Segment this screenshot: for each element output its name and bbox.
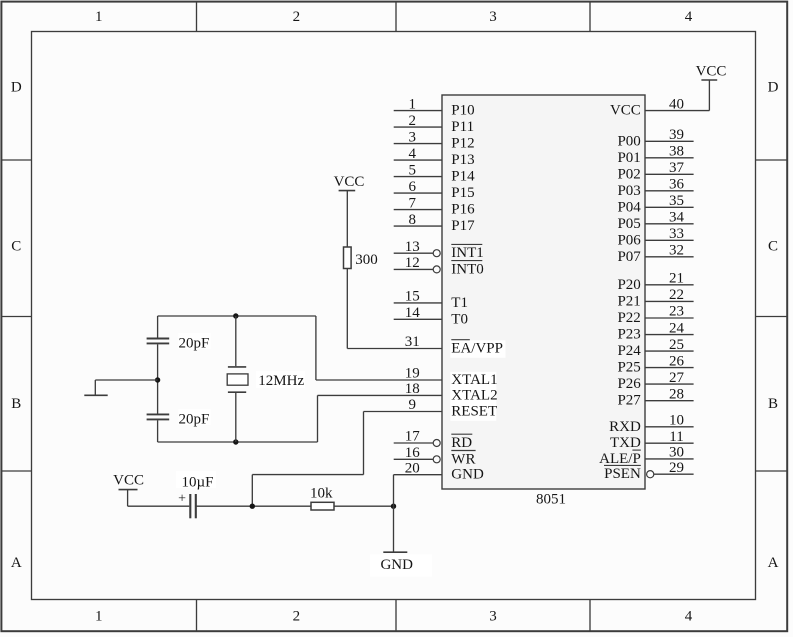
pin 25 P24: [617, 337, 693, 359]
svg-text:21: 21: [669, 271, 684, 287]
pin 33 P06: [617, 226, 693, 248]
pin 29 PSEN: [604, 460, 694, 482]
VCC power symbol middle: [334, 174, 365, 191]
pin 22 P21: [617, 287, 693, 309]
svg-text:11: 11: [669, 429, 683, 445]
svg-text:10: 10: [669, 413, 684, 429]
svg-text:13: 13: [405, 239, 420, 255]
wire: [157, 420, 159, 442]
capacitor C3 10uF polarized: [176, 471, 216, 518]
svg-text:P14: P14: [451, 169, 475, 185]
svg-text:8: 8: [409, 212, 417, 228]
wire: [157, 316, 159, 338]
wire: [95, 379, 157, 381]
svg-text:23: 23: [669, 304, 684, 320]
junction: [233, 313, 238, 318]
svg-text:3: 3: [409, 129, 417, 145]
pin 27 P26: [617, 370, 693, 392]
pin 9 RESET: [409, 397, 498, 421]
pin 16 WR: [394, 445, 476, 467]
capacitor 20pF top: [147, 333, 211, 352]
pin 5 P14: [394, 162, 475, 184]
pin 32 P07: [617, 243, 693, 265]
grid row label B left: [11, 396, 21, 412]
wire: [363, 412, 365, 475]
svg-text:20pF: 20pF: [179, 412, 210, 428]
svg-text:12MHz: 12MHz: [258, 373, 304, 389]
svg-text:2: 2: [293, 609, 301, 625]
pin 31 EA/VPP: [405, 334, 506, 358]
svg-text:30: 30: [669, 445, 684, 461]
svg-text:P16: P16: [451, 202, 475, 218]
svg-text:RD: RD: [451, 435, 472, 451]
wire: [394, 474, 443, 476]
svg-text:+: +: [178, 492, 186, 507]
op-amp U1 8051 microcontroller body: [442, 95, 645, 489]
svg-text:40: 40: [669, 96, 684, 112]
svg-text:6: 6: [409, 179, 417, 195]
wire: [2, 470, 787, 472]
svg-text:1: 1: [409, 96, 417, 112]
svg-text:P21: P21: [617, 293, 640, 309]
pin 35 P04: [617, 193, 693, 215]
pin 8 P17: [394, 212, 475, 234]
grid column label 3 top: [489, 9, 497, 25]
wire: [334, 505, 394, 507]
grid row label B right: [768, 396, 778, 412]
svg-text:RESET: RESET: [451, 404, 497, 420]
svg-text:25: 25: [669, 337, 684, 353]
svg-text:VCC: VCC: [610, 103, 641, 119]
svg-text:1: 1: [95, 9, 103, 25]
pin 11 TXD: [610, 429, 694, 451]
svg-text:12: 12: [405, 255, 420, 271]
pin 40 VCC: [610, 96, 684, 118]
svg-text:P03: P03: [617, 183, 640, 199]
resistor 10k: [310, 486, 334, 511]
svg-text:B: B: [768, 396, 778, 412]
svg-text:P20: P20: [617, 277, 640, 293]
wire: [645, 80, 709, 111]
grid column label 4 top: [685, 9, 693, 25]
junction: [250, 504, 255, 509]
svg-text:D: D: [768, 80, 779, 96]
pin 13 INT1: [394, 239, 484, 261]
svg-text:3: 3: [489, 9, 497, 25]
svg-text:P05: P05: [617, 216, 640, 232]
svg-text:C: C: [11, 239, 21, 255]
svg-text:P12: P12: [451, 136, 474, 152]
capacitor 20pF bottom: [147, 409, 211, 428]
grid row label A left: [11, 555, 22, 571]
svg-text:5: 5: [409, 162, 417, 178]
svg-text:10k: 10k: [310, 486, 333, 502]
svg-text:33: 33: [669, 226, 684, 242]
svg-text:24: 24: [669, 320, 685, 336]
wire: [364, 411, 443, 413]
pin 20 GND: [405, 460, 484, 482]
pin 6 P15: [394, 179, 475, 201]
svg-text:P24: P24: [617, 343, 641, 359]
wire: [395, 2, 397, 631]
svg-text:4: 4: [409, 146, 417, 162]
pin 2 P11: [394, 113, 474, 135]
svg-text:38: 38: [669, 144, 684, 160]
wire: [316, 379, 442, 381]
wire: [347, 348, 442, 350]
pin 23 P22: [617, 304, 693, 326]
svg-text:18: 18: [405, 381, 420, 397]
wire: [2, 316, 787, 318]
VCC power symbol top right: [696, 64, 727, 80]
wire: [128, 490, 190, 507]
svg-text:RXD: RXD: [609, 419, 641, 435]
svg-text:A: A: [11, 555, 22, 571]
pin 4 P13: [394, 146, 475, 168]
svg-text:27: 27: [669, 370, 685, 386]
svg-text:35: 35: [669, 193, 684, 209]
svg-text:14: 14: [405, 305, 421, 321]
svg-text:VCC: VCC: [113, 472, 144, 488]
svg-text:P10: P10: [451, 103, 474, 119]
wire: [157, 344, 159, 413]
svg-text:20: 20: [405, 460, 420, 476]
svg-text:10µF: 10µF: [182, 474, 214, 490]
svg-text:GND: GND: [380, 557, 413, 573]
svg-text:P25: P25: [617, 360, 640, 376]
wire: [315, 316, 317, 380]
svg-text:VCC: VCC: [334, 174, 365, 190]
svg-text:XTAL2: XTAL2: [451, 387, 497, 403]
svg-text:P00: P00: [617, 133, 640, 149]
svg-text:EA/VPP: EA/VPP: [451, 341, 503, 357]
svg-text:P15: P15: [451, 185, 474, 201]
pin 36 P03: [617, 177, 693, 199]
svg-text:26: 26: [669, 353, 685, 369]
svg-text:P23: P23: [617, 327, 640, 343]
pin 38 P01: [617, 144, 693, 166]
wire: [393, 475, 395, 507]
svg-text:B: B: [11, 396, 21, 412]
svg-text:8051: 8051: [536, 492, 566, 508]
svg-text:9: 9: [409, 397, 417, 413]
grid row label D left: [11, 80, 22, 96]
svg-text:4: 4: [685, 609, 693, 625]
svg-text:D: D: [11, 80, 22, 96]
svg-text:17: 17: [405, 429, 421, 445]
grid row label C left: [11, 239, 21, 255]
svg-text:P11: P11: [451, 119, 474, 135]
svg-text:P06: P06: [617, 232, 641, 248]
svg-text:29: 29: [669, 460, 684, 476]
svg-text:2: 2: [409, 113, 417, 129]
svg-text:ALE/P: ALE/P: [599, 451, 641, 467]
pin 19 XTAL1: [405, 366, 498, 390]
svg-text:PSEN: PSEN: [604, 466, 641, 482]
pin 18 XTAL2: [405, 381, 498, 405]
svg-text:32: 32: [669, 243, 684, 259]
grid row label A right: [768, 555, 779, 571]
grid column label 4 bottom: [685, 609, 693, 625]
svg-text:GND: GND: [451, 467, 484, 483]
svg-text:INT1: INT1: [451, 245, 484, 261]
svg-text:P13: P13: [451, 152, 474, 168]
svg-text:31: 31: [405, 334, 420, 350]
svg-text:1: 1: [95, 609, 103, 625]
wire: [318, 394, 443, 396]
VCC power symbol bottom left: [113, 472, 144, 489]
wire: [251, 475, 253, 507]
grid column label 2 top: [293, 9, 301, 25]
grid column label 3 bottom: [489, 609, 497, 625]
wire: [2, 159, 787, 161]
value label 8051: [536, 492, 566, 508]
wire: [196, 2, 198, 631]
pin 21 P20: [617, 271, 693, 293]
svg-text:TXD: TXD: [610, 435, 641, 451]
pin 34 P05: [617, 210, 693, 232]
pin 24 P23: [617, 320, 693, 342]
svg-text:3: 3: [489, 609, 497, 625]
pin 14 T0: [394, 305, 468, 327]
svg-text:P02: P02: [617, 166, 640, 182]
wire: [346, 191, 348, 247]
svg-text:WR: WR: [451, 451, 475, 467]
wire: [158, 441, 318, 443]
junction: [155, 377, 160, 382]
grid row label C right: [768, 239, 778, 255]
svg-text:P26: P26: [617, 376, 641, 392]
svg-text:T1: T1: [451, 295, 468, 311]
svg-text:INT0: INT0: [451, 261, 484, 277]
pin 10 RXD: [609, 413, 693, 435]
pin 39 P00: [617, 127, 693, 149]
svg-text:19: 19: [405, 366, 420, 382]
svg-text:28: 28: [669, 386, 684, 402]
grid column label 1 top: [95, 9, 103, 25]
wire: [317, 395, 319, 442]
svg-text:XTAL1: XTAL1: [451, 372, 497, 388]
grid row label D right: [768, 80, 779, 96]
junction: [233, 439, 238, 444]
wire: [158, 315, 316, 317]
svg-text:P04: P04: [617, 199, 641, 215]
svg-text:C: C: [768, 239, 778, 255]
svg-text:VCC: VCC: [696, 64, 727, 80]
pin 1 P10: [394, 96, 475, 118]
pin 15 T1: [394, 289, 468, 311]
svg-text:2: 2: [293, 9, 301, 25]
svg-text:20pF: 20pF: [179, 336, 210, 352]
svg-text:15: 15: [405, 289, 420, 305]
svg-text:A: A: [768, 555, 779, 571]
svg-text:P27: P27: [617, 393, 641, 409]
wire: [346, 269, 348, 349]
wire: [196, 505, 311, 507]
pin 17 RD: [394, 429, 473, 451]
svg-text:16: 16: [405, 445, 421, 461]
crystal Y1 12MHz: [227, 316, 305, 442]
ground: [370, 506, 432, 576]
pin 37 P02: [617, 160, 693, 182]
svg-text:T0: T0: [451, 311, 468, 327]
ground: [84, 380, 107, 395]
wire: [252, 474, 363, 476]
junction: [391, 504, 396, 509]
svg-text:P17: P17: [451, 218, 475, 234]
svg-text:P22: P22: [617, 310, 640, 326]
svg-text:34: 34: [669, 210, 685, 226]
pin 28 P27: [617, 386, 693, 408]
resistor 300: [344, 247, 378, 269]
svg-text:37: 37: [669, 160, 685, 176]
svg-text:P01: P01: [617, 150, 640, 166]
svg-text:300: 300: [355, 252, 378, 268]
grid column label 1 bottom: [95, 609, 103, 625]
pin 26 P25: [617, 353, 693, 375]
pin 12 INT0: [394, 255, 484, 277]
wire: [589, 2, 591, 631]
svg-text:36: 36: [669, 177, 685, 193]
svg-text:22: 22: [669, 287, 684, 303]
svg-text:39: 39: [669, 127, 684, 143]
svg-text:4: 4: [685, 9, 693, 25]
pin 3 P12: [394, 129, 475, 151]
pin 30 ALE/P: [599, 445, 693, 467]
svg-text:P07: P07: [617, 249, 641, 265]
pin 7 P16: [394, 195, 475, 217]
grid column label 2 bottom: [293, 609, 301, 625]
svg-text:7: 7: [409, 195, 417, 211]
